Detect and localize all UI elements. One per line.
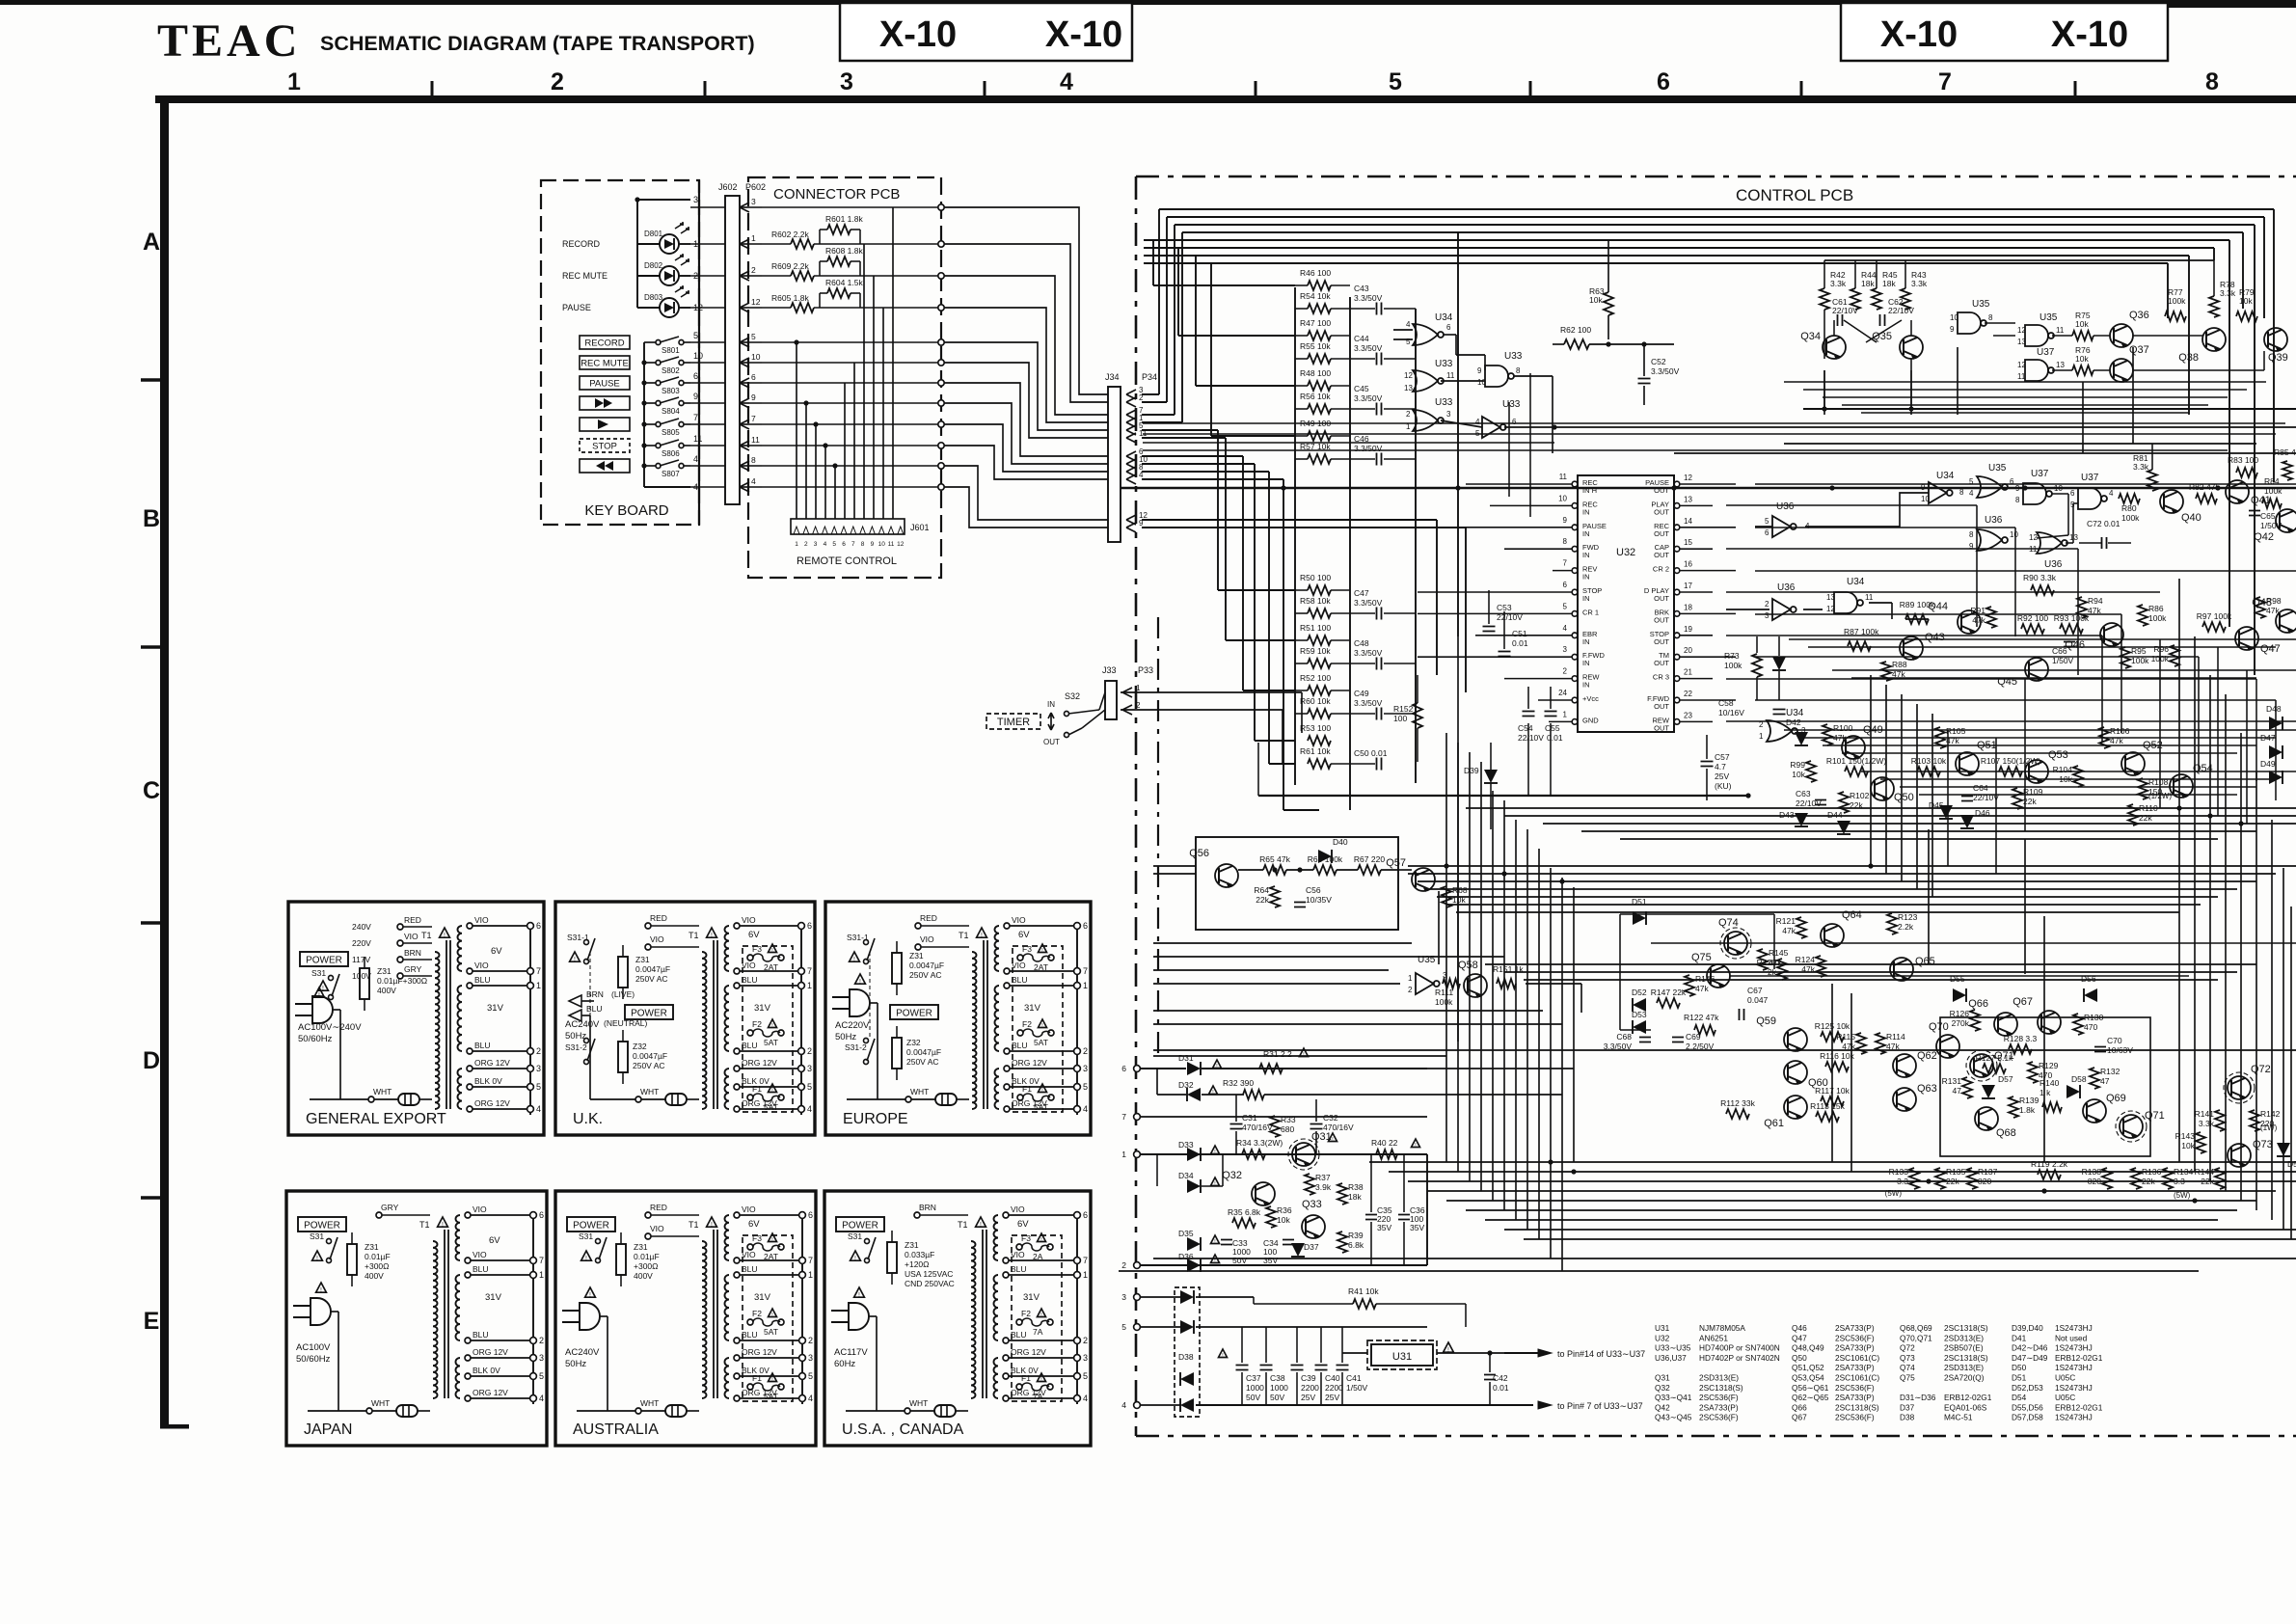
svg-text:D39: D39 (1464, 766, 1479, 775)
svg-text:Q53: Q53 (2048, 749, 2068, 761)
svg-text:WHT: WHT (373, 1087, 392, 1096)
wire row pin3 top (762, 206, 941, 208)
Q56 block box (1196, 837, 1398, 930)
svg-text:2AT: 2AT (1034, 962, 1048, 972)
cross-coupling wires (1833, 320, 1835, 336)
svg-text:R88: R88 (1892, 660, 1907, 669)
svg-text:CONTROL PCB: CONTROL PCB (1736, 186, 1853, 204)
U.S.A. , CANADA secondary winding 6V (994, 1215, 999, 1260)
U32 pin 22 F.FWD OUT (1674, 697, 1680, 703)
svg-text:PAUSE: PAUSE (562, 303, 591, 312)
bridge rails (1140, 1296, 1181, 1298)
svg-text:C39: C39 (1301, 1373, 1316, 1383)
svg-text:HD7402P or SN7402N: HD7402P or SN7402N (1699, 1353, 1780, 1363)
svg-text:7: 7 (808, 1256, 813, 1265)
svg-text:Q67: Q67 (2012, 996, 2033, 1008)
U32 left pin wires (1466, 483, 1572, 485)
svg-text:!: ! (771, 1237, 772, 1243)
svg-text:R152: R152 (1393, 704, 1414, 714)
staircase bundle connector PCB to J34 (941, 207, 1108, 394)
svg-text:R38: R38 (1348, 1182, 1364, 1192)
svg-text:C38: C38 (1270, 1373, 1285, 1383)
svg-text:BLU: BLU (742, 1041, 758, 1050)
sheet border left ticks (141, 378, 161, 382)
svg-text:VIO: VIO (1011, 1250, 1025, 1259)
svg-text:20: 20 (1684, 646, 1692, 655)
svg-text:31V: 31V (754, 1292, 771, 1303)
svg-text:3.3/50V: 3.3/50V (1354, 393, 1383, 403)
svg-text:5AT: 5AT (764, 1327, 778, 1337)
svg-text:VIO: VIO (742, 1204, 756, 1214)
svg-text:GRY: GRY (381, 1203, 399, 1212)
svg-text:13: 13 (1826, 593, 1835, 602)
svg-text:5AT: 5AT (1034, 1038, 1048, 1047)
svg-text:Z31: Z31 (905, 1240, 919, 1250)
svg-text:Q38: Q38 (2178, 352, 2199, 364)
svg-text:5: 5 (808, 1371, 813, 1381)
svg-text:7: 7 (539, 1256, 544, 1265)
transistor Q40 (2160, 490, 2183, 513)
motor drive block outline (1140, 1153, 1427, 1155)
svg-text:S31-2: S31-2 (565, 1042, 587, 1052)
svg-text:8: 8 (1959, 488, 1964, 497)
power box U.K. outline (555, 902, 815, 1135)
key PAUSE / switch S803 (580, 376, 630, 390)
U.K. fuse F1 5AT (747, 1095, 753, 1100)
svg-text:3: 3 (814, 541, 818, 548)
gate cluster wires (1444, 334, 1456, 336)
svg-text:13: 13 (1404, 384, 1413, 392)
EUROPE fuse F2 5AT (1017, 1030, 1023, 1036)
svg-text:U34: U34 (1847, 577, 1865, 587)
svg-text:15: 15 (1684, 538, 1692, 547)
svg-text:ORG 12V: ORG 12V (474, 1058, 510, 1068)
svg-text:Q69: Q69 (2106, 1093, 2126, 1104)
svg-text:C43: C43 (1354, 284, 1369, 293)
transistor Q57 (1412, 868, 1435, 891)
svg-text:VIO: VIO (920, 934, 934, 944)
svg-text:9: 9 (871, 541, 875, 548)
transistor Q33 (1302, 1215, 1325, 1238)
U.S.A. , CANADA fuse F1 7A (1016, 1384, 1022, 1390)
svg-text:100k: 100k (2168, 296, 2186, 306)
svg-text:P33: P33 (1138, 665, 1153, 675)
svg-text:1S2473HJ: 1S2473HJ (2055, 1323, 2093, 1333)
power box U.S.A. , CANADA outline (824, 1191, 1091, 1446)
transistor Q36 (2110, 324, 2133, 347)
svg-text:8: 8 (1988, 313, 1993, 322)
svg-text:ERB12-02G1: ERB12-02G1 (2055, 1353, 2103, 1363)
svg-text:8: 8 (1969, 530, 1974, 539)
GENERAL EXPORT secondary winding 6V (457, 926, 462, 971)
svg-text:BLU: BLU (473, 1264, 489, 1274)
regulator U31 box (1367, 1340, 1437, 1369)
AUSTRALIA secondary taps and output pins (801, 1215, 803, 1404)
svg-text:R35 6.8k: R35 6.8k (1228, 1207, 1261, 1217)
svg-text:5: 5 (1083, 1371, 1088, 1381)
svg-text:Q68,Q69: Q68,Q69 (1900, 1323, 1932, 1333)
svg-text:T1: T1 (689, 931, 699, 940)
svg-text:VIO: VIO (742, 1250, 756, 1259)
svg-text:R60 10k: R60 10k (1300, 696, 1331, 706)
svg-text:OUT: OUT (1654, 615, 1669, 624)
U.S.A. , CANADA secondary taps and output pins (1076, 1215, 1078, 1404)
svg-text:!: ! (1415, 1143, 1416, 1149)
svg-text:220V: 220V (352, 938, 371, 948)
svg-text:5: 5 (539, 1371, 544, 1381)
svg-text:11: 11 (1865, 593, 1874, 602)
svg-text:1: 1 (808, 1270, 813, 1280)
svg-text:Q56: Q56 (1189, 848, 1209, 859)
svg-text:U.K.: U.K. (573, 1111, 603, 1127)
svg-text:5: 5 (1083, 1082, 1088, 1092)
svg-text:X-10: X-10 (879, 14, 957, 55)
transistor Q51 (1956, 752, 1979, 775)
svg-text:OUT: OUT (1654, 659, 1669, 667)
capacitor C38 1000 50V (1260, 1366, 1273, 1370)
svg-text:6V: 6V (491, 946, 502, 957)
svg-text:22: 22 (1684, 690, 1692, 698)
svg-text:2: 2 (1408, 986, 1413, 994)
svg-text:2SD313(E): 2SD313(E) (1944, 1363, 1984, 1372)
svg-text:11: 11 (2056, 326, 2065, 335)
svg-text:RECORD: RECORD (562, 239, 601, 249)
svg-text:Q64: Q64 (1842, 909, 1862, 921)
svg-text:R101 150(1/2W): R101 150(1/2W) (1826, 756, 1887, 766)
svg-text:+120Ω: +120Ω (905, 1259, 930, 1269)
svg-text:12: 12 (1404, 371, 1413, 380)
svg-text:6: 6 (751, 372, 756, 382)
svg-text:R122 47k: R122 47k (1684, 1013, 1719, 1022)
svg-text:250V AC: 250V AC (909, 970, 942, 980)
svg-text:Z31: Z31 (909, 951, 924, 961)
svg-text:R100: R100 (1833, 723, 1853, 733)
svg-text:7: 7 (1083, 966, 1088, 976)
svg-text:31V: 31V (485, 1292, 502, 1303)
key play / switch S805 (580, 418, 630, 431)
svg-text:USA 125VAC: USA 125VAC (905, 1269, 953, 1279)
svg-text:D: D (143, 1047, 160, 1074)
svg-text:2: 2 (1121, 1260, 1126, 1270)
keyboard box solid right edge (698, 180, 700, 525)
svg-text:R53 100: R53 100 (1300, 723, 1331, 733)
bus band A horizontals (mid upper) (1466, 807, 2296, 809)
svg-text:0.01µF: 0.01µF (634, 1252, 660, 1261)
transistor Q53 (2025, 760, 2048, 783)
svg-text:OUT: OUT (1654, 486, 1669, 495)
P34 pin wires into board (1142, 393, 1159, 395)
Q56 block internal wires (1238, 869, 1263, 871)
svg-text:10: 10 (2010, 530, 2018, 539)
svg-text:Q33: Q33 (1302, 1199, 1322, 1210)
svg-text:REC MUTE: REC MUTE (581, 359, 629, 369)
transistor Q41 (2226, 480, 2249, 503)
svg-text:D32: D32 (1178, 1080, 1194, 1090)
svg-text:R62 100: R62 100 (1560, 325, 1591, 335)
svg-text:Q67: Q67 (1792, 1413, 1807, 1422)
svg-text:T1: T1 (959, 931, 969, 940)
svg-text:5AT: 5AT (764, 1102, 778, 1112)
svg-text:R85 47k: R85 47k (2274, 447, 2296, 457)
svg-text:D54: D54 (2012, 1393, 2027, 1402)
transistor Q56 (1215, 864, 1238, 887)
svg-text:Q33∼Q41: Q33∼Q41 (1655, 1393, 1692, 1402)
EUROPE primary winding (972, 952, 977, 1109)
svg-text:S804: S804 (662, 407, 680, 416)
svg-text:D35: D35 (1178, 1229, 1194, 1238)
svg-text:0.01: 0.01 (1547, 733, 1563, 743)
svg-text:IN: IN (1582, 551, 1590, 559)
svg-text:E: E (144, 1308, 160, 1335)
svg-text:F3: F3 (1022, 944, 1032, 954)
svg-text:6V: 6V (1018, 930, 1030, 940)
svg-text:Q51,Q52: Q51,Q52 (1792, 1363, 1824, 1372)
EUROPE POWER switch label (890, 1005, 938, 1019)
svg-text:12: 12 (751, 297, 761, 307)
svg-text:35V: 35V (1263, 1256, 1278, 1265)
svg-text:2: 2 (1083, 1336, 1088, 1345)
svg-text:Q72: Q72 (2251, 1064, 2271, 1075)
svg-text:R112 33k: R112 33k (1720, 1098, 1756, 1108)
EUROPE line filter Z31 (892, 953, 902, 984)
svg-text:3: 3 (536, 1064, 541, 1073)
svg-text:Q61: Q61 (1764, 1118, 1784, 1129)
svg-text:R64: R64 (1254, 885, 1269, 895)
svg-text:M4C-51: M4C-51 (1944, 1413, 1973, 1422)
svg-text:Z32: Z32 (906, 1038, 921, 1047)
svg-text:B: B (143, 505, 160, 532)
U32 pin 24 +Vcc (1572, 697, 1578, 703)
mid-right verticals (2159, 639, 2161, 808)
bottom power long rails (1427, 1068, 1574, 1069)
svg-text:U37: U37 (2037, 347, 2055, 358)
U32 right pin wires (1680, 483, 1736, 485)
svg-text:C: C (143, 777, 160, 804)
U32 pin 1 GND (1572, 719, 1578, 725)
IC U32 body (1578, 475, 1674, 732)
U.S.A. , CANADA AC plug (849, 1303, 869, 1330)
svg-text:2SA733(P): 2SA733(P) (1835, 1343, 1875, 1353)
ff cross wires (2052, 493, 2068, 495)
AUSTRALIA line filter Z31 (616, 1244, 626, 1275)
transistor Q52 (2121, 752, 2145, 775)
svg-text:!: ! (771, 1377, 772, 1383)
svg-text:JAPAN: JAPAN (304, 1421, 352, 1438)
AUSTRALIA fuse block dashed box (743, 1235, 793, 1401)
svg-text:680: 680 (1281, 1124, 1294, 1134)
svg-text:11: 11 (888, 541, 895, 548)
svg-text:WHT: WHT (640, 1398, 659, 1408)
transistor Q63 (1893, 1088, 1916, 1111)
svg-text:1.8k: 1.8k (2019, 1105, 2036, 1115)
svg-text:C52: C52 (1651, 357, 1666, 366)
JAPAN secondary taps and output pins (532, 1215, 534, 1404)
svg-text:1S2473HJ: 1S2473HJ (2055, 1343, 2093, 1353)
svg-text:2SC536(F): 2SC536(F) (1835, 1413, 1875, 1422)
svg-text:IN: IN (1047, 700, 1055, 709)
transistor Q61 (1784, 1096, 1807, 1119)
svg-text:Q62: Q62 (1917, 1050, 1937, 1062)
svg-text:1/50V: 1/50V (1346, 1383, 1368, 1393)
svg-text:5: 5 (1389, 68, 1402, 95)
svg-text:22/10V: 22/10V (1888, 306, 1914, 315)
svg-text:D36: D36 (1178, 1252, 1194, 1261)
svg-text:R73: R73 (1724, 651, 1740, 661)
svg-text:22/10V: 22/10V (1832, 306, 1858, 315)
svg-text:R58 10k: R58 10k (1300, 596, 1331, 606)
svg-text:9: 9 (2015, 484, 2020, 493)
rectifier D38 dashed box (1175, 1287, 1200, 1417)
U.K. line filter Z32 (618, 1042, 628, 1072)
GENERAL EXPORT secondary taps and output pins (529, 926, 531, 1115)
svg-text:Q65: Q65 (1915, 956, 1935, 967)
svg-text:2SA733(P): 2SA733(P) (1835, 1363, 1875, 1372)
svg-text:12: 12 (1684, 474, 1692, 482)
svg-text:Q73: Q73 (1900, 1353, 1915, 1363)
svg-text:VIO: VIO (1012, 961, 1026, 970)
svg-text:R604 1.5k: R604 1.5k (825, 278, 863, 287)
svg-text:Q46: Q46 (2065, 639, 2085, 651)
svg-text:6: 6 (1121, 1064, 1126, 1073)
svg-text:Q36: Q36 (2129, 310, 2149, 321)
svg-text:F2: F2 (1022, 1019, 1032, 1029)
svg-text:SCHEMATIC DIAGRAM (TAPE TRANSP: SCHEMATIC DIAGRAM (TAPE TRANSPORT) (320, 32, 755, 55)
svg-text:6V: 6V (489, 1235, 500, 1246)
svg-text:10/35V: 10/35V (1306, 895, 1332, 905)
U32 pin 11 REC IN H (1572, 481, 1578, 487)
svg-text:22/10V: 22/10V (1518, 733, 1544, 743)
svg-text:Q68: Q68 (1996, 1127, 2016, 1139)
svg-text:31V: 31V (1024, 1003, 1041, 1014)
svg-text:8: 8 (861, 541, 865, 548)
svg-text:S31-2: S31-2 (845, 1042, 867, 1052)
svg-text:5AT: 5AT (1034, 1102, 1048, 1112)
PCB section dashed edge segment (1157, 617, 1159, 1053)
svg-text:47: 47 (2100, 1076, 2110, 1086)
svg-text:S31: S31 (310, 1232, 324, 1241)
svg-text:U32: U32 (1655, 1333, 1670, 1342)
transistor Q62 (1893, 1054, 1916, 1077)
EUROPE fuse F1 5AT (1017, 1095, 1023, 1100)
svg-text:!: ! (1040, 1237, 1041, 1243)
wires U35 to Q36/Q37 (1985, 322, 2015, 324)
svg-text:4: 4 (693, 454, 698, 464)
svg-text:9: 9 (1950, 325, 1955, 334)
transistor Q31 (1292, 1143, 1315, 1166)
U32 pin 10 REC IN (1572, 503, 1578, 509)
svg-text:6: 6 (807, 921, 812, 931)
svg-text:7: 7 (1563, 559, 1568, 568)
control PCB dashed outline (1136, 176, 2296, 178)
svg-text:U05C: U05C (2055, 1373, 2075, 1383)
svg-text:AC100V∼240V: AC100V∼240V (298, 1022, 362, 1033)
svg-text:R34 3.3(2W): R34 3.3(2W) (1236, 1138, 1283, 1148)
svg-text:1000: 1000 (1270, 1383, 1288, 1393)
svg-text:7: 7 (1083, 1256, 1088, 1265)
svg-text:R102: R102 (1850, 791, 1870, 800)
svg-text:VIO: VIO (1012, 915, 1026, 925)
EUROPE secondary winding 6V (995, 926, 1000, 971)
svg-text:D52: D52 (1632, 988, 1647, 997)
svg-text:11: 11 (1559, 473, 1568, 481)
svg-text:Q70: Q70 (1929, 1021, 1949, 1033)
svg-text:R609 2.2k: R609 2.2k (771, 261, 809, 271)
junction dots on heavy rail (1281, 485, 1285, 490)
JAPAN secondary winding 6V (455, 1215, 460, 1260)
svg-text:Q57: Q57 (1386, 857, 1406, 869)
svg-text:C50 0.01: C50 0.01 (1354, 748, 1388, 758)
AUSTRALIA fuse F2 5AT (747, 1319, 753, 1325)
svg-text:F3: F3 (1021, 1233, 1031, 1243)
svg-text:Q66: Q66 (1968, 998, 1988, 1010)
svg-text:C64: C64 (1973, 783, 1988, 793)
capacitor C37 1000 50V (1236, 1366, 1249, 1370)
svg-text:S802: S802 (662, 366, 680, 375)
svg-text:S31: S31 (311, 968, 326, 978)
transistor Q35 (1900, 336, 1923, 359)
transistor Q71 (1970, 1054, 1993, 1077)
svg-text:6: 6 (1083, 921, 1088, 931)
svg-text:(5W): (5W) (2174, 1191, 2191, 1200)
svg-text:BLU: BLU (1011, 1330, 1027, 1340)
svg-text:Q50: Q50 (1894, 792, 1914, 803)
transistor Q48 (2276, 609, 2296, 633)
svg-text:10k: 10k (1277, 1215, 1290, 1225)
svg-text:VIO: VIO (404, 932, 419, 941)
X-10 title box left (840, 3, 1132, 61)
cap rail long extension (1457, 636, 1459, 1042)
svg-text:R124: R124 (1796, 955, 1816, 964)
svg-text:11: 11 (751, 435, 760, 445)
svg-text:17: 17 (1684, 582, 1692, 590)
svg-text:100k: 100k (2121, 513, 2140, 523)
svg-text:3.3/50V: 3.3/50V (1354, 698, 1383, 708)
svg-text:U33: U33 (1435, 359, 1453, 369)
svg-text:2SA720(Q): 2SA720(Q) (1944, 1373, 1985, 1383)
bottom pin 4 wire (644, 486, 690, 488)
U32 pin 19 STOP OUT (1674, 633, 1680, 638)
svg-text:NJM78M05A: NJM78M05A (1699, 1323, 1745, 1333)
transistor Q43 (1900, 636, 1923, 660)
top pin 3 wire (637, 199, 690, 201)
svg-text:BLK 0V: BLK 0V (474, 1076, 502, 1086)
svg-text:24: 24 (1558, 689, 1567, 697)
svg-text:R129: R129 (2039, 1061, 2059, 1070)
svg-text:5: 5 (1765, 517, 1769, 526)
U32 pin 4 EBR IN (1572, 633, 1578, 638)
svg-text:3: 3 (1083, 1064, 1088, 1073)
svg-text:Z31: Z31 (365, 1242, 379, 1252)
svg-text:3: 3 (1563, 645, 1568, 654)
svg-text:!: ! (1041, 948, 1042, 954)
svg-text:X-10: X-10 (2051, 14, 2128, 55)
svg-text:F2: F2 (752, 1309, 762, 1318)
U.S.A. , CANADA secondary winding 12V-0-12V (994, 1358, 999, 1398)
U.K. secondary winding 12V-0-12V (725, 1069, 730, 1109)
power block rail pin7 (1140, 1116, 1427, 1118)
svg-text:Q56∼Q61: Q56∼Q61 (1792, 1383, 1829, 1393)
svg-text:4: 4 (1969, 489, 1974, 498)
svg-text:3: 3 (751, 197, 756, 206)
svg-text:Q39: Q39 (2268, 352, 2288, 364)
svg-text:D47∼D49: D47∼D49 (2012, 1353, 2048, 1363)
svg-text:R54 10k: R54 10k (1300, 291, 1331, 301)
left column horizontals below Q56 (1153, 942, 1412, 944)
svg-text:X-10: X-10 (1045, 14, 1122, 55)
EUROPE secondary taps and output pins (1076, 926, 1078, 1115)
svg-text:R39: R39 (1348, 1231, 1364, 1240)
svg-text:D37: D37 (1900, 1402, 1915, 1412)
